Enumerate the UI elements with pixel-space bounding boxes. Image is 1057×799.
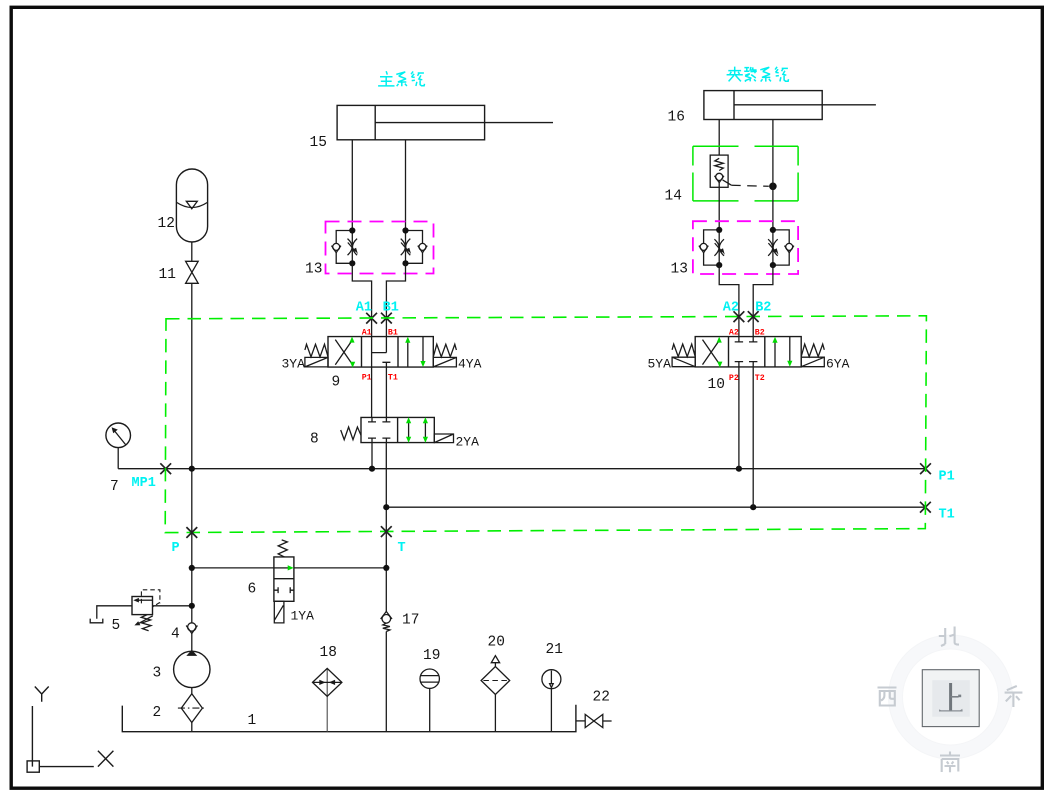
wire T1 between valves (385, 367, 387, 417)
svg-text:21: 21 (546, 642, 563, 658)
solenoid 6YA spring (801, 344, 824, 357)
relief valve 5 internal arrow (138, 599, 153, 601)
valve 8 right position through arrows (409, 422, 426, 438)
svg-text:13: 13 (671, 262, 688, 278)
svg-text:11: 11 (159, 267, 176, 283)
unit13L-B check branch wire (406, 231, 423, 264)
valve 10 left position arrowheads (717, 337, 722, 343)
valve 9 centre position T1 blocked (382, 362, 390, 367)
unit13L-B junction top (402, 227, 408, 233)
pump 3 circle (174, 651, 210, 687)
wire to drain valve 22 (576, 720, 585, 722)
UCS X axis label (98, 751, 114, 767)
junction valve 10 T2 / rail (750, 504, 756, 510)
unit13R-B junction bottom (770, 262, 776, 268)
valve 9 body (three position boxes) (328, 337, 433, 368)
unit13R-B throttle line (772, 230, 774, 265)
pilot check valve 14 seat (715, 176, 724, 183)
wire drain valve outlet (603, 720, 612, 722)
wire 13R-B to B2 port (753, 265, 773, 337)
meter-out valve group box 13 (left, magenta dashed) (326, 222, 434, 274)
cylinder 15 piston rod (375, 122, 553, 124)
unit13L-B check valve (418, 243, 427, 252)
valve 10 right position arrowheads (772, 337, 777, 343)
junction P column / rail (189, 466, 195, 472)
svg-text:T: T (398, 541, 406, 556)
svg-text:1YA: 1YA (291, 609, 315, 624)
solenoid 5YA spring (672, 344, 695, 357)
pressure gauge 7 (106, 423, 131, 448)
compass centre square (922, 670, 979, 727)
pilot check valve 14 ball (716, 173, 723, 180)
wire cyl16 right port (772, 120, 774, 183)
gauge 7 stem (117, 448, 119, 469)
svg-text:10: 10 (708, 377, 725, 393)
wire valve 8 T down the tank column (385, 443, 387, 612)
wire valve 10 T2 to tank rail (752, 367, 754, 507)
X marker T on manifold bottom edge (381, 526, 392, 537)
junction P column / valve 6 line (189, 565, 195, 571)
valve 9 left position crossed arrows (335, 340, 352, 365)
svg-text:15: 15 (310, 135, 327, 151)
UCS Y axis label (35, 687, 49, 702)
wire P1 between valves (371, 367, 373, 417)
relief valve 5 adjust arrow (139, 616, 153, 624)
solenoid 3YA box (305, 357, 328, 367)
unit13R-B throttle valve (768, 239, 778, 256)
unit13R-B check branch wire (773, 230, 789, 265)
valve 6 bottom position blocked (274, 587, 294, 593)
pilot connection diagonal (723, 180, 732, 185)
svg-text:T1: T1 (388, 373, 398, 382)
svg-text:2YA: 2YA (456, 435, 480, 450)
cylinder 15 body (337, 105, 485, 139)
svg-text:13: 13 (305, 262, 322, 278)
wire relief valve outlet to tank symbol (97, 606, 132, 619)
item 20 triangle cap (491, 656, 499, 667)
solenoid 6YA box (801, 357, 824, 367)
item 21 stem (550, 689, 552, 732)
tank line 1 (122, 705, 576, 732)
item 18 diamond (313, 668, 342, 696)
junction T column / valve 6 line (383, 565, 389, 571)
unit13L-A throttle line (351, 231, 353, 264)
unit13L-A junction bottom (349, 260, 355, 266)
wire 13R-A to A2 port (719, 265, 739, 337)
cylinder 16 piston rod (734, 104, 876, 106)
cylinder 16 body (704, 91, 822, 120)
manifold boundary (green dashed box) (165, 316, 926, 533)
svg-text:5YA: 5YA (648, 356, 672, 371)
X marker P on manifold bottom edge (186, 527, 197, 538)
valve 6 spring (top) (278, 540, 287, 557)
X marker gauge line at manifold edge (160, 463, 171, 474)
compass 西 (west) (878, 688, 897, 706)
svg-text:2: 2 (153, 705, 162, 721)
filter 2 element line (178, 707, 206, 709)
check valve 17 ball (382, 615, 391, 624)
item 19 circle (420, 669, 439, 688)
unit13R-A check branch wire (704, 230, 720, 265)
item 19 level lines (420, 676, 439, 683)
unit13R-A check valve (699, 243, 708, 252)
UCS origin square (27, 761, 39, 772)
unit13L-B throttle valve (401, 239, 411, 256)
valve 8 arrowheads (406, 417, 411, 423)
svg-text:8: 8 (310, 432, 319, 448)
wire valve 6 to T column (294, 567, 386, 569)
solenoid 4YA box (433, 357, 456, 367)
svg-text:19: 19 (423, 648, 440, 664)
wire cyl15 cap-end port (405, 140, 407, 231)
wire cyl16 left port (718, 120, 720, 156)
accumulator 12 fluid divider arc (177, 203, 207, 208)
svg-text:22: 22 (593, 689, 610, 705)
svg-text:6YA: 6YA (826, 356, 850, 371)
svg-text:7: 7 (110, 479, 119, 495)
relief valve 5 pilot dashed box (141, 590, 160, 607)
item 18 crossline (313, 681, 342, 683)
unit13R-A throttle valve (714, 239, 724, 256)
valve 9 right position arrowheads (405, 337, 410, 343)
item 20 stem (494, 695, 496, 732)
svg-text:MP1: MP1 (132, 476, 156, 491)
X marker B2 on manifold edge (748, 311, 759, 322)
unit13R-B junction top (770, 227, 776, 233)
unit13L-A check branch wire (336, 231, 352, 264)
unit13L-A check valve (332, 243, 341, 252)
svg-text:9: 9 (332, 375, 341, 391)
cylinder 16 piston (733, 91, 735, 120)
svg-text:A1: A1 (356, 301, 372, 316)
check valve 17 spring (383, 623, 390, 631)
svg-text:5: 5 (112, 618, 121, 634)
svg-text:14: 14 (665, 189, 682, 205)
svg-text:16: 16 (668, 110, 685, 126)
X marker B1 on manifold edge (381, 313, 392, 324)
check valve 17 seat (381, 611, 392, 619)
wire filter to tank line (191, 723, 193, 732)
cylinder 15 piston (374, 105, 376, 139)
wire P column to valve 6 (192, 567, 274, 569)
valve 10 right position straight arrows (775, 337, 790, 367)
tank symbol (relief drain) (90, 619, 103, 623)
svg-text:P1: P1 (939, 470, 955, 485)
solenoid 3YA spring (305, 344, 328, 357)
svg-text:1: 1 (248, 713, 257, 729)
wire pump to filter (191, 688, 193, 694)
pilot check group box 14 (green dashed) (693, 146, 798, 201)
compass 北 (north) (939, 627, 959, 647)
check valve 4 (188, 623, 196, 631)
wire cyl15 rod-end port (351, 140, 353, 231)
svg-text:18: 18 (320, 645, 337, 661)
unit13L-A junction top (349, 227, 355, 233)
wire P column (accumulator to pump) (191, 283, 193, 623)
wire 13L-A to A1 port (352, 263, 371, 336)
svg-text:12: 12 (158, 216, 175, 232)
svg-text:P2: P2 (729, 374, 739, 383)
unit13L-B throttle line (405, 231, 407, 264)
unit13R-A junction top (716, 227, 722, 233)
compass ring (896, 642, 1006, 752)
X marker A1 on manifold edge (366, 313, 377, 324)
wire tank rail T1 (386, 506, 925, 508)
valve 6 top position flow arrow (274, 567, 290, 569)
junction valve 10 P2 / rail (736, 466, 742, 472)
pilot check valve 14 body (710, 155, 728, 187)
unit13R-A junction bottom (716, 262, 722, 268)
shutoff valve 11 (186, 261, 199, 283)
compass 东 (east) (1005, 686, 1023, 707)
suction filter 2 diamond (181, 694, 202, 723)
solenoid 4YA spring (433, 344, 456, 357)
unit13L-B junction bottom (402, 260, 408, 266)
pilot dashed line (731, 185, 769, 186)
svg-text:6: 6 (248, 581, 257, 597)
item 18 arrows (319, 680, 335, 685)
item 19 stem (429, 688, 431, 731)
item 21 needle (550, 671, 554, 688)
solenoid 1YA box (274, 601, 284, 623)
unit13L-A throttle valve (348, 239, 358, 256)
valve 9 left position arrowheads (349, 337, 354, 343)
item 20 element dashes (483, 680, 507, 682)
valve 10 body (three position boxes) (695, 337, 801, 367)
wire 13L-B to B1 port (386, 263, 405, 336)
svg-text:T2: T2 (755, 374, 765, 383)
wire check 14 down to throttle group (718, 183, 720, 230)
valve 9 centre position A1-B1-P1 gallery (372, 337, 387, 368)
junction valve 8 / rail (369, 466, 375, 472)
svg-text:3YA: 3YA (282, 356, 306, 371)
unit13R-A throttle line (718, 230, 720, 265)
relief valve 5 spring (141, 615, 151, 631)
wire relief valve inlet (153, 605, 192, 607)
relief valve 5 body (132, 597, 153, 615)
solenoid 5YA box (672, 357, 695, 367)
X marker P1 on manifold edge (920, 463, 931, 474)
svg-text:3: 3 (153, 665, 162, 681)
accumulator 12 (176, 169, 207, 242)
junction T column / rail (383, 504, 389, 510)
title 夹紧系统 (clamping system) cyan (727, 67, 789, 82)
valve 8 body (two position boxes) (361, 417, 434, 442)
UCS Y axis line (31, 706, 33, 767)
pump 3 outlet triangle (186, 650, 197, 656)
X marker A2 on manifold edge (734, 311, 745, 322)
valve 8 return spring (341, 427, 361, 440)
accumulator 12 gas triangle (186, 201, 197, 209)
valve 10 centre position blocked ports (735, 337, 758, 367)
item 21 circle (542, 670, 561, 689)
valve 8 left position blocked ports (368, 417, 390, 442)
pilot check valve 14 spring (715, 158, 724, 170)
title 主系统 (main system) cyan (378, 71, 424, 86)
junction pilot line / B leg (769, 183, 777, 191)
svg-text:4YA: 4YA (458, 356, 482, 371)
svg-text:P1: P1 (362, 373, 372, 382)
unit13R-B check valve (785, 243, 794, 252)
gauge 7 needle (115, 431, 126, 445)
valve 9 right position straight arrows (408, 337, 423, 368)
junction P column / relief valve (189, 603, 195, 609)
svg-text:P: P (172, 541, 180, 556)
wire check 4 to pump (191, 633, 193, 651)
item 18 stem (326, 668, 328, 731)
wire B leg through box 14 (772, 183, 774, 230)
svg-text:17: 17 (402, 612, 419, 628)
svg-text:20: 20 (488, 634, 505, 650)
drain valve 22 (585, 714, 603, 727)
wire pressure rail P1 (118, 468, 925, 470)
meter-out valve group box 13 (right, magenta dashed) (693, 221, 798, 274)
wire valve 10 P2 to pressure rail (738, 367, 740, 469)
wire valve 8 P to pressure rail (371, 443, 373, 469)
svg-text:4: 4 (171, 627, 180, 643)
wire check 17 to tank line (385, 632, 387, 732)
svg-text:T1: T1 (939, 508, 955, 523)
X marker T1 on manifold edge (920, 502, 931, 513)
wire accumulator to valve 11 (191, 242, 193, 261)
valve 10 left position crossed arrows (703, 340, 720, 365)
UCS X axis line (39, 766, 94, 768)
compass 上 glyph (939, 683, 963, 711)
valve 6 body (two boxes) (274, 557, 294, 601)
compass 南 (south) (940, 752, 960, 773)
solenoid 2YA box (434, 434, 453, 443)
item 20 diamond (481, 667, 510, 695)
